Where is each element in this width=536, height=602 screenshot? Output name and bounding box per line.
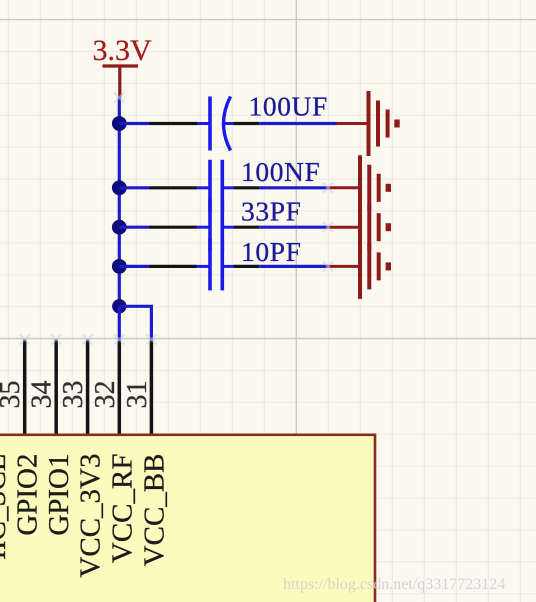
pin 1 of capacitor 100UF (black) (149, 122, 198, 125)
pin 34 line (54, 340, 58, 435)
power rail 3.3V bar symbol (103, 66, 139, 98)
ground symbol (100NF) (328, 155, 391, 220)
wire C2 left blue (119, 186, 149, 189)
svg-text:GPIO2: GPIO2 (12, 454, 44, 536)
capacitor C 100UF (polarized) (197, 97, 234, 151)
wire C1 left blue (119, 122, 149, 125)
svg-text:33: 33 (58, 381, 89, 409)
pin 33 line (86, 340, 90, 435)
svg-text:IIC_SCL: IIC_SCL (0, 454, 12, 560)
pin 2 of capacitor 10PF (black) (234, 265, 259, 268)
capacitor C 33PF (196, 199, 234, 251)
junction dot node 3V3 row3 (112, 220, 127, 235)
pin 35 line (23, 340, 27, 435)
ground symbol (33PF) (328, 195, 391, 260)
svg-text:VCC_BB: VCC_BB (138, 454, 170, 567)
svg-text:34: 34 (27, 381, 58, 409)
wire C3 left blue (119, 226, 149, 229)
svg-text:35: 35 (0, 381, 26, 409)
wire C1 right blue (259, 122, 336, 125)
svg-text:31: 31 (122, 381, 153, 409)
wire to pin 32 VCC_RF (118, 306, 121, 341)
pin 1 of capacitor 100NF (black) (149, 186, 197, 189)
svg-text:3.3V: 3.3V (93, 34, 153, 67)
pin 2 of capacitor 100UF (black) (234, 122, 259, 125)
pin 1 of capacitor 33PF (black) (149, 226, 197, 229)
pin 32 line (118, 341, 122, 434)
svg-text:100NF: 100NF (241, 156, 320, 187)
wire main vertical rail (118, 98, 121, 307)
svg-text:32: 32 (90, 381, 121, 409)
svg-text:https://blog.csdn.net/q3317723: https://blog.csdn.net/q3317723124 (283, 576, 505, 593)
junction dot node 3V3 row1 (112, 116, 127, 131)
wire branch to pin 31 VCC_BB (119, 306, 151, 341)
svg-text:GPIO1: GPIO1 (43, 454, 75, 536)
IC body U1 (0, 435, 375, 602)
svg-text:10PF: 10PF (241, 236, 302, 267)
wire C3 right blue (259, 226, 328, 229)
wire C2 right blue (259, 186, 328, 189)
wire C4 left blue (119, 265, 149, 268)
svg-text:100UF: 100UF (249, 91, 328, 122)
ground symbol (100UF) (337, 91, 400, 156)
junction dot node 3V3 row2 (112, 180, 127, 195)
pin 1 of capacitor 10PF (black) (149, 265, 197, 268)
svg-text:33PF: 33PF (241, 196, 302, 227)
capacitor C 10PF (196, 238, 234, 290)
pin 2 of capacitor 33PF (black) (234, 226, 259, 229)
ground symbol (10PF) (328, 234, 391, 299)
svg-text:VCC_RF: VCC_RF (106, 454, 138, 564)
capacitor C 100NF (196, 160, 234, 212)
pin 31 line (150, 341, 154, 434)
junction dot node VCC branch (112, 299, 126, 313)
wire C4 right blue (259, 265, 328, 268)
junction dot node 3V3 row4 (112, 259, 127, 274)
svg-text:VCC_3V3: VCC_3V3 (75, 454, 107, 578)
pin 2 of capacitor 100NF (black) (234, 186, 259, 189)
pin end cross markers (20, 93, 333, 345)
